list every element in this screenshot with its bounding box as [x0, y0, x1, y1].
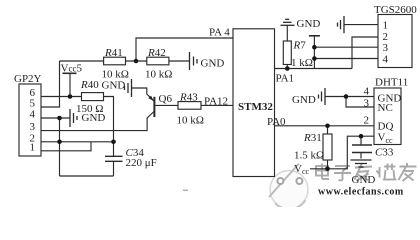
junction R31 to Vcc rail	[325, 167, 330, 172]
sensor DHT11 box	[374, 88, 401, 145]
wire ground drop	[59, 118, 61, 176]
svg-text:TGS2600: TGS2600	[374, 4, 417, 16]
svg-text:R40: R40	[80, 79, 99, 91]
junction R41-R42 to PA4	[134, 59, 139, 64]
svg-text:GND: GND	[102, 80, 126, 92]
junction Vcc5 on pin6 wire	[68, 94, 73, 99]
svg-text:10 kΩ: 10 kΩ	[145, 69, 172, 81]
watermark logo	[269, 164, 308, 210]
svg-text:GP2Y: GP2Y	[14, 73, 42, 85]
wire pin6 to R40	[41, 96, 82, 98]
watermark text 电子发烧友 (faux glyph strokes)	[316, 163, 417, 181]
svg-text:2: 2	[364, 115, 370, 127]
wire bottom rail	[60, 175, 114, 177]
wire pin2	[41, 141, 114, 143]
wire pin4 to ground	[41, 117, 70, 119]
svg-text:4: 4	[30, 109, 36, 121]
wire TGS pin2 riser	[352, 37, 378, 69]
svg-text:GND: GND	[352, 174, 376, 186]
resistor R42	[147, 57, 169, 65]
svg-text:220 μF: 220 μF	[126, 157, 157, 169]
wire R7 bottom	[286, 65, 288, 69]
capacitor C33	[360, 136, 362, 145]
wire Vcc5 stem	[69, 73, 71, 96]
svg-text:R43: R43	[179, 92, 198, 104]
svg-text:10 kΩ: 10 kΩ	[177, 115, 204, 127]
junction Vcc to C33	[359, 134, 364, 139]
ground C33	[351, 160, 372, 167]
wire pin3 to Q6	[41, 112, 154, 131]
svg-text:PA12: PA12	[204, 96, 228, 108]
svg-text:PA0: PA0	[267, 116, 286, 128]
svg-text:4: 4	[383, 53, 389, 65]
wire riser with bar	[313, 36, 315, 69]
wire TGS pin3	[314, 46, 378, 48]
watermark stray dash	[183, 189, 188, 191]
wire R41 to R42	[126, 60, 147, 62]
ground R42	[190, 52, 198, 70]
svg-text:R31: R31	[303, 132, 322, 144]
resistor R31	[327, 126, 329, 134]
wire PA0 to DQ	[275, 125, 375, 127]
ground above R7	[281, 19, 295, 25]
wire ground to Q6	[132, 88, 154, 101]
junction DHT pin4-pin3	[344, 94, 349, 99]
svg-text:DHT11: DHT11	[375, 77, 408, 89]
wire TGS pin1	[344, 24, 378, 26]
transistor Q6	[153, 97, 155, 117]
junction pin2 ground drop	[57, 140, 62, 145]
ground TGS pin1	[338, 16, 345, 33]
junction TGS pin3	[312, 45, 317, 50]
svg-text:R7: R7	[293, 40, 307, 52]
svg-text:Vcc: Vcc	[294, 163, 310, 176]
wire C34 bottom	[113, 161, 115, 176]
wire Q6 base to R43	[155, 104, 178, 106]
sensor TGS2600 box	[378, 15, 412, 68]
svg-text:STM32: STM32	[238, 101, 273, 113]
wire pin5	[41, 61, 60, 107]
connector GP2Y box	[19, 84, 41, 156]
svg-text:R42: R42	[147, 47, 166, 59]
wire pin1	[41, 142, 91, 151]
wire R40 right to C34	[104, 97, 114, 157]
resistor R40	[82, 93, 104, 101]
wire R42 to ground	[169, 60, 190, 62]
svg-text:150 Ω: 150 Ω	[76, 103, 103, 115]
svg-text:NC: NC	[378, 102, 393, 114]
junction TGS pin4	[312, 56, 317, 61]
junction R7 on PA1 wire	[285, 66, 290, 71]
svg-text:C33: C33	[375, 147, 394, 159]
svg-text:3: 3	[383, 42, 389, 54]
resistor R7	[286, 25, 288, 41]
ground pin4	[70, 109, 77, 127]
wire R43 to STM32 PA12	[201, 104, 233, 106]
resistor R41	[104, 57, 126, 65]
svg-text:GND: GND	[292, 94, 316, 106]
svg-text:1.5 kΩ: 1.5 kΩ	[294, 150, 324, 162]
svg-text:1 kΩ: 1 kΩ	[291, 57, 313, 69]
svg-text:2: 2	[383, 31, 389, 43]
junction pin2 to C34	[111, 140, 116, 145]
wire DHT pin4	[325, 96, 374, 98]
svg-text:1: 1	[30, 141, 36, 153]
svg-text:4: 4	[364, 86, 370, 98]
svg-text:1: 1	[383, 20, 389, 32]
wire PA1	[275, 68, 353, 70]
svg-text:PA1: PA1	[276, 73, 295, 85]
wire feed to R41	[60, 60, 104, 62]
svg-text:GND: GND	[297, 18, 321, 30]
svg-text:GND: GND	[201, 58, 225, 70]
resistor R43	[178, 102, 201, 110]
svg-text:3: 3	[364, 98, 370, 110]
svg-text:www.elecfans.com: www.elecfans.com	[318, 187, 404, 198]
svg-text:Q6: Q6	[159, 93, 173, 105]
svg-text:R41: R41	[104, 47, 123, 59]
svg-text:PA 4: PA 4	[209, 27, 230, 39]
wire TGS pin4	[314, 58, 378, 60]
junction pin4 ground drop	[57, 116, 62, 121]
junction PA0 to R31	[325, 124, 330, 129]
capacitor C34	[105, 156, 123, 161]
wire Vcc rail	[310, 136, 374, 169]
wire PA4	[136, 38, 233, 61]
mcu STM32 box	[233, 29, 275, 177]
svg-text:3: 3	[30, 121, 36, 133]
wire DHT pin3 drop	[346, 97, 374, 108]
